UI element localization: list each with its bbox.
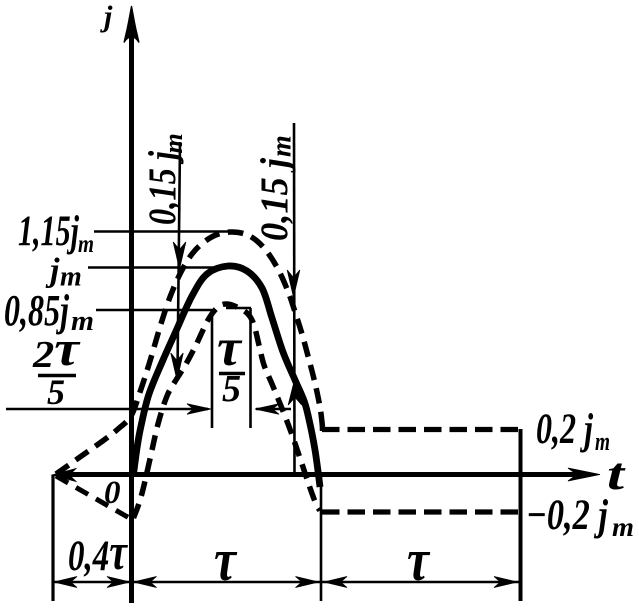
svg-text:0,15 j: 0,15 j: [141, 151, 184, 225]
svg-text:0,2 j: 0,2 j: [536, 406, 594, 453]
svg-text:m: m: [159, 133, 188, 153]
svg-text:m: m: [267, 135, 298, 157]
svg-text:1,15j: 1,15j: [18, 208, 80, 255]
svg-text:0,4τ: 0,4τ: [68, 524, 128, 581]
svg-text:5: 5: [47, 372, 65, 412]
svg-text:t: t: [607, 448, 626, 499]
svg-text:τ: τ: [214, 527, 238, 593]
svg-text:τ: τ: [407, 527, 431, 593]
svg-text:m: m: [612, 512, 634, 542]
svg-text:m: m: [78, 231, 94, 258]
svg-text:5: 5: [222, 368, 241, 410]
svg-text:−0,2 j: −0,2 j: [526, 492, 609, 539]
svg-text:0: 0: [104, 475, 121, 511]
svg-text:0,15 j: 0,15 j: [253, 158, 296, 241]
